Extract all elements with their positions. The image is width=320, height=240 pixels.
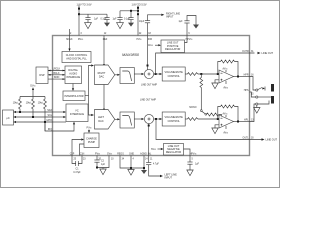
svg-text:1µF: 1µF [179, 21, 184, 23]
svg-text:4.7µF: 4.7µF [153, 164, 160, 166]
svg-text:INTERFACE: INTERFACE [70, 113, 84, 116]
svg-text:μC: μC [6, 117, 9, 120]
wire right DAC to filter [115, 74, 118, 76]
wire OUTL route [156, 119, 262, 140]
svg-text:10kΩ: 10kΩ [13, 102, 19, 105]
svg-text:REGULATOR: REGULATOR [166, 151, 182, 154]
svg-text:PUMP: PUMP [88, 141, 96, 144]
wire SDA [14, 111, 53, 113]
capacitor C10 1uF HPVSS [187, 156, 192, 171]
wire V2 branch left to caps [120, 10, 138, 12]
wire LRCLK [48, 70, 65, 72]
block line out negative regulator [164, 144, 184, 156]
wire feedback loop left [218, 107, 221, 120]
ground G11 [187, 170, 193, 176]
arrow line out left [262, 138, 265, 140]
ground G10 dark [141, 170, 147, 174]
wire OUTR route to line out [156, 53, 255, 74]
wire DAI to interpolator [72, 84, 74, 89]
svg-text:C1P: C1P [70, 153, 75, 155]
node J13 [148, 125, 150, 127]
ground G2 dark [104, 23, 110, 27]
ground G8 [102, 168, 104, 170]
wire BCLK [48, 74, 65, 76]
node J4 [137, 10, 139, 12]
wire regulator to HPVSS pin [184, 149, 191, 156]
svg-text:DAC: DAC [98, 120, 103, 123]
capacitor C3 1uF [85, 14, 90, 22]
svg-text:CLOCK CONTROL: CLOCK CONTROL [66, 54, 88, 57]
svg-text:SVSS: SVSS [107, 153, 112, 155]
wire SVSS join [97, 156, 109, 168]
svg-text:INR: INR [148, 39, 152, 41]
wire feedback loop right [218, 62, 221, 75]
node J6 [130, 10, 132, 12]
arrow right line input [161, 14, 164, 16]
svg-text:GPIO: GPIO [46, 120, 52, 122]
svg-text:INTERPOLATOR: INTERPOLATOR [64, 95, 83, 98]
switch SW1 mono [200, 110, 202, 112]
svg-text:SCL: SCL [48, 115, 53, 117]
block line out positive regulator [161, 40, 185, 53]
svg-text:INTERFACE: INTERFACE [66, 76, 80, 79]
resistor R6 10k [44, 97, 47, 132]
wire MCLK stub [69, 29, 71, 49]
IC U1 MAX9850 outline [53, 36, 250, 156]
svg-text:I²C: I²C [75, 109, 79, 112]
block uC [3, 110, 14, 125]
wire HPL to jack [250, 104, 256, 122]
arrow line out right [258, 52, 261, 54]
svg-text:LINE OUT: LINE OUT [262, 52, 274, 55]
wire SCL [14, 116, 53, 118]
wire volume right out [185, 73, 187, 75]
wire IRQ line [44, 121, 46, 123]
node J19 [130, 167, 132, 169]
wire supply V1 vertical to DVDD pin [78, 6, 80, 36]
wire pullup rail [20, 96, 45, 98]
resistor R9 feedback left [221, 105, 235, 108]
wire opamp right output to HPR pin [234, 76, 250, 78]
svg-text:SVSS: SVSS [151, 149, 156, 151]
svg-text:REGULATOR: REGULATOR [165, 48, 181, 51]
node J18 [96, 167, 98, 169]
svg-text:PVSS: PVSS [87, 127, 92, 129]
svg-text:CHARGE: CHARGE [86, 137, 97, 140]
wire supply V2 vertical to PVDD pin [137, 6, 139, 36]
wire opamp left output to HPL pin [234, 121, 250, 123]
svg-text:INPUT: INPUT [165, 176, 173, 179]
capacitor C1 flying cap [72, 156, 82, 167]
svg-text:0.47µF: 0.47µF [73, 172, 81, 174]
svg-text:DVDD: DVDD [78, 39, 83, 41]
svg-text:AND DIGITAL PLL: AND DIGITAL PLL [66, 58, 87, 61]
op-amp U2 right HP amp [219, 70, 234, 83]
svg-text:PVDD: PVDD [136, 39, 141, 41]
wire filter to mixer right [134, 73, 141, 75]
block digital audio interface [65, 66, 82, 84]
ground G1 [85, 23, 92, 29]
node J10 feedback tap right [217, 73, 219, 75]
capacitor C7 10uF series input cap right channel [145, 15, 161, 36]
capacitor C4 0.1uF [104, 14, 109, 22]
node J3 [137, 7, 139, 9]
block volume mute control right [162, 67, 185, 81]
block volume mute control left [162, 112, 185, 126]
svg-text:DSP: DSP [39, 74, 44, 77]
svg-text:IRQ: IRQ [48, 129, 52, 131]
svg-text:HPL: HPL [244, 120, 249, 122]
wire regulator to HPVDD pin [185, 36, 188, 43]
headphone jack J12 [254, 84, 274, 113]
ground G7 opamp left [215, 125, 219, 128]
svg-text:0.1µF: 0.1µF [124, 18, 131, 20]
arrow into clock block [68, 49, 70, 52]
svg-text:RIGHT: RIGHT [98, 72, 106, 75]
svg-text:REGS: REGS [117, 153, 124, 155]
svg-text:INPUT: INPUT [166, 16, 174, 19]
wire interpolator to DACs [85, 66, 91, 96]
wire mono to left node [219, 115, 222, 120]
svg-text:LINE OUT AMP: LINE OUT AMP [140, 99, 157, 102]
svg-text:DVDD: DVDD [30, 85, 35, 87]
block filter left [120, 112, 134, 128]
mixer M1 right line out amp [144, 69, 153, 78]
wire mixer out to volume right [154, 73, 160, 75]
pin SENSE wire [250, 92, 256, 97]
wire C1P to charge pump [72, 140, 81, 156]
svg-text:1µF: 1µF [195, 164, 200, 166]
wire third uC line [14, 121, 53, 123]
svg-text:MONO: MONO [189, 107, 196, 109]
svg-text:1µF: 1µF [101, 164, 106, 166]
wire INL up to mixer [148, 124, 150, 156]
wire volume left out [185, 118, 187, 120]
node J20 [143, 167, 145, 169]
block DSP [36, 67, 48, 84]
resistor R2 vertical mono [200, 74, 203, 91]
arrow DVDD up [32, 90, 34, 97]
node J17 [237, 121, 239, 123]
node J5 [137, 13, 139, 15]
wire filter to mixer left [134, 118, 141, 120]
wire HPR to jack [250, 77, 256, 91]
block clock control and digital PLL [62, 52, 91, 63]
node J14 OUTL tap [155, 118, 157, 120]
resistor R8 mono [207, 113, 219, 116]
ground G5 dark [193, 25, 199, 29]
wire C1N to charge pump [80, 144, 85, 156]
op-amp U3 left HP amp [219, 115, 234, 128]
node J8 OUTR tap [155, 73, 157, 75]
mixer M2 left line out amp [144, 114, 153, 123]
svg-text:CONTROL: CONTROL [168, 120, 181, 123]
svg-text:BCLK: BCLK [53, 73, 59, 75]
svg-text:1µF: 1µF [113, 18, 118, 20]
svg-text:OUTR: OUTR [242, 51, 249, 53]
block filter right (lowpass) [120, 68, 134, 84]
arrow left line input [160, 175, 163, 177]
block left DAC [95, 110, 115, 130]
svg-text:1.8V TO 5.5V: 1.8V TO 5.5V [131, 3, 146, 6]
svg-text:DAC: DAC [99, 76, 104, 79]
svg-text:GND: GND [129, 153, 134, 155]
svg-text:VOLUME/MUTE: VOLUME/MUTE [165, 116, 184, 119]
svg-text:MAX9850: MAX9850 [122, 52, 140, 57]
resistor R4 10k [19, 97, 22, 113]
svg-text:LEFT: LEFT [98, 116, 105, 119]
capacitor C8 1uF on HPVDD [184, 16, 196, 36]
wire to op amp left [198, 118, 219, 120]
wires SDA SCL into I2C block [53, 111, 64, 113]
wire supply branch to caps [79, 13, 107, 15]
block charge pump [84, 133, 99, 148]
svg-text:C1N: C1N [80, 153, 85, 155]
capacitor C6 [128, 11, 133, 23]
svg-text:1µF: 1µF [94, 18, 99, 20]
svg-text:10kΩ: 10kΩ [26, 102, 32, 105]
ground G6 opamp right [215, 80, 219, 83]
block I2C interface [66, 104, 88, 122]
svg-text:10µF: 10µF [139, 21, 145, 23]
ground G3 [117, 23, 124, 29]
svg-text:VOLUME/MUTE: VOLUME/MUTE [165, 71, 184, 74]
wire INR down to mixer [147, 36, 149, 70]
ground G9 [128, 170, 134, 176]
resistor R5 10k [32, 97, 35, 118]
node J9 [200, 73, 202, 75]
wires REGS GND AGND to ground [120, 156, 144, 169]
svg-text:AGND: AGND [140, 152, 147, 155]
resistor R7 [188, 118, 198, 121]
ground G4 dark [128, 23, 134, 27]
resistor R1 [188, 73, 198, 76]
svg-text:HPR: HPR [244, 75, 249, 77]
node J2 [78, 13, 80, 15]
svg-text:SDA: SDA [47, 109, 52, 112]
capacitor C9 4.7uF INL input [146, 156, 160, 177]
svg-text:SDIN: SDIN [54, 77, 60, 79]
svg-text:HPVDD: HPVDD [186, 39, 193, 41]
svg-text:LINE OUT AMP: LINE OUT AMP [141, 84, 158, 87]
svg-text:OUTL: OUTL [243, 138, 250, 140]
node J16 feedback tap left [217, 118, 219, 120]
svg-text:LINE OUT: LINE OUT [266, 139, 278, 142]
wire IRQ into I2C bottom [53, 124, 75, 131]
wire mono resistor to switch [200, 91, 202, 110]
block interpolator [63, 91, 85, 101]
resistor R3 feedback right [221, 60, 235, 63]
capacitor C2 [94, 156, 99, 168]
svg-text:HPVSS: HPVSS [190, 153, 197, 155]
page border frame [1, 1, 280, 188]
wire SDIN [48, 78, 65, 80]
svg-text:PVSS: PVSS [95, 153, 100, 155]
node J15 [221, 118, 223, 120]
wire left DAC to filter [115, 118, 118, 120]
svg-text:CONTROL: CONTROL [168, 75, 181, 78]
node J11 [237, 76, 239, 78]
wire REF to DACs [103, 36, 105, 67]
svg-text:LRCLK: LRCLK [53, 69, 61, 71]
wire mixer left to volume [154, 118, 160, 120]
svg-text:REF: REF [103, 39, 108, 41]
svg-text:HPS: HPS [244, 90, 249, 92]
node J7 [147, 65, 149, 67]
capacitor C5 [117, 11, 122, 23]
block right DAC [95, 65, 115, 85]
wire to op amp right [198, 73, 219, 75]
node J1 [78, 8, 80, 10]
svg-text:10kΩ: 10kΩ [38, 102, 44, 105]
